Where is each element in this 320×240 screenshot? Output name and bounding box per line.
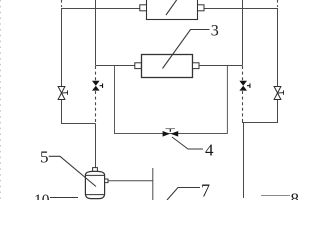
valve V4 (solid black, on dashed branch) — [239, 81, 250, 91]
valve 4 handle bar — [166, 128, 176, 130]
port left of box 1 — [140, 5, 147, 11]
svg-text:3: 3 — [211, 23, 219, 40]
evaporator box 3 — [142, 55, 193, 78]
wire top-left horizontal — [61, 8, 140, 10]
port right of box 1 — [198, 5, 205, 11]
leader line inside box 1 — [166, 0, 178, 15]
leader line label 4 — [172, 137, 203, 149]
valve 4 (solid black, on bypass) — [163, 129, 179, 137]
valve V2 (outline, on right rail) — [274, 87, 283, 100]
wire tank to pipe 7 — [108, 180, 153, 182]
wire left rail lower — [62, 100, 96, 124]
wire dashed below valve V4 — [242, 91, 244, 123]
wire stub dashed above right rail — [277, 0, 279, 7]
svg-text:5: 5 — [40, 147, 49, 166]
port right of box 3 — [193, 63, 200, 69]
tank 5 neck — [93, 168, 98, 172]
wire top-right horizontal — [204, 8, 278, 10]
wire bypass left drop — [115, 66, 228, 134]
wire inner-left vertical — [95, 0, 97, 66]
figure edge dotted border — [0, 0, 2, 200]
svg-text:4: 4 — [205, 141, 214, 160]
leader line label 10 — [50, 197, 78, 199]
tank 5 shoulder line — [85, 174, 104, 176]
valve V3 (solid black, on dashed branch) — [92, 81, 103, 91]
wire stub dashed above left rail — [61, 0, 63, 7]
svg-text:8: 8 — [291, 190, 300, 201]
wire dashed below valve V3 — [95, 91, 97, 124]
leader line label 5 — [49, 156, 96, 186]
wire joining right valves — [242, 100, 278, 123]
wire dashed above valve V4 — [242, 66, 244, 81]
wire down to tank — [95, 124, 97, 169]
valve V1 (outline, on left rail) — [58, 87, 67, 100]
wire from box 3 right port — [199, 65, 243, 67]
pipe 7 vertical — [152, 168, 154, 200]
wire right downcomer to 8 — [243, 123, 245, 199]
wire left rail upper — [61, 8, 63, 87]
tank 5 bottom line — [85, 194, 104, 196]
port left of box 3 — [135, 63, 142, 69]
condenser box 1 — [147, 0, 198, 20]
leader line label 3 — [163, 30, 210, 69]
port right of tank 5 — [105, 179, 108, 183]
svg-text:7: 7 — [201, 181, 210, 201]
leader line label 7 — [167, 188, 200, 201]
wire dashed above valve V3 — [95, 66, 97, 81]
wire right rail upper — [277, 8, 279, 87]
svg-text:10: 10 — [34, 192, 50, 200]
wire to evaporator left port — [96, 65, 136, 67]
leader line label 8 — [261, 195, 290, 197]
wire inner-right vertical — [242, 0, 244, 66]
tank 5 body — [85, 171, 104, 198]
